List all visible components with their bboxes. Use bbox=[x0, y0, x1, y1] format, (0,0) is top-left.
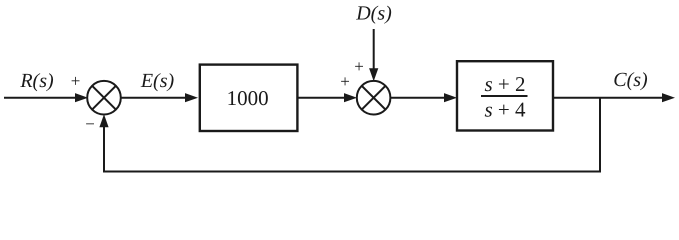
wire: S2 to block G2 bbox=[390, 97, 446, 99]
summing junction S1 bbox=[87, 81, 121, 115]
summing junction S2 bbox=[357, 81, 391, 115]
svg-text:s + 2: s + 2 bbox=[484, 72, 525, 96]
wire: input R(s) line bbox=[4, 97, 76, 99]
wire: feedback pickoff down from output bbox=[599, 98, 601, 172]
arrowhead into S1 bottom bbox=[99, 114, 108, 127]
arrowhead output bbox=[662, 93, 675, 102]
wire: D(s) down into S2 bbox=[373, 29, 375, 70]
svg-text:R(s): R(s) bbox=[19, 70, 54, 92]
wire: G2 to output C(s) bbox=[553, 97, 664, 99]
svg-text:1000: 1000 bbox=[227, 86, 269, 110]
arrowhead into block G2 bbox=[444, 93, 457, 102]
wire: feedback up into S1 bbox=[103, 125, 105, 172]
svg-text:C(s): C(s) bbox=[613, 69, 648, 91]
svg-text:+: + bbox=[340, 72, 350, 91]
fraction bar bbox=[481, 95, 528, 97]
wire: G1 to summing junction S2 bbox=[297, 97, 346, 99]
svg-text:s + 4: s + 4 bbox=[484, 98, 526, 122]
block G2 transfer function (s+2)/(s+4) bbox=[457, 61, 553, 130]
arrowhead into block G1 bbox=[185, 93, 198, 102]
svg-text:−: − bbox=[85, 115, 95, 134]
arrowhead into S2 top bbox=[369, 68, 378, 81]
wire: feedback bottom run bbox=[103, 171, 601, 173]
arrowhead into summing junction S1 bbox=[75, 93, 88, 102]
svg-text:E(s): E(s) bbox=[140, 70, 175, 92]
svg-text:D(s): D(s) bbox=[355, 3, 392, 25]
svg-text:+: + bbox=[71, 72, 81, 91]
block G1 gain 1000 bbox=[200, 65, 298, 131]
wire: S1 to block G1 bbox=[121, 97, 187, 99]
arrowhead into summing junction S2 bbox=[344, 93, 357, 102]
svg-text:+: + bbox=[354, 57, 364, 76]
